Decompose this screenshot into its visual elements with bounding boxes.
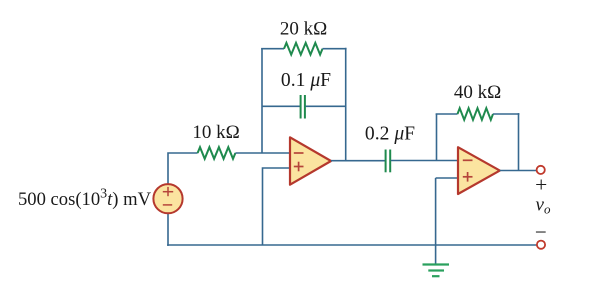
wire: 40k branch left segment: [436, 113, 458, 115]
wire: 10k to op-amp U1 inverting input: [235, 152, 290, 154]
svg-text:10 kΩ: 10 kΩ: [192, 122, 239, 143]
terminal bottom (output -): [537, 241, 545, 249]
wire: bottom rail: [167, 244, 537, 246]
svg-text:0.1 μF: 0.1 μF: [281, 70, 331, 91]
wire: U2 noninverting vertical down to ground: [435, 178, 437, 265]
wire: feedback left vertical: [261, 49, 263, 153]
capacitor C1 0.1 uF: [300, 95, 302, 119]
svg-text:−: −: [535, 220, 547, 244]
svg-text:500 cos(103t) mV: 500 cos(103t) mV: [18, 187, 152, 210]
wire: feedback 2 right vertical: [518, 113, 520, 170]
U1 plus sign: [294, 166, 304, 168]
wire: feedback right vertical: [345, 48, 347, 161]
svg-text:+: +: [535, 172, 547, 196]
svg-text:20 kΩ: 20 kΩ: [280, 19, 327, 40]
capacitor C2 0.2 uF: [385, 150, 387, 173]
svg-text:vo: vo: [536, 195, 551, 217]
wire: U2 output to terminal: [500, 170, 537, 172]
wire: op-amp U1 noninverting input: [263, 168, 291, 245]
wire: 0.1uF branch right segment: [306, 105, 346, 107]
wire: 40k branch right segment: [493, 113, 519, 115]
svg-text:40 kΩ: 40 kΩ: [454, 82, 501, 103]
wire: source bottom: [167, 213, 169, 246]
resistor R1 10 kOhm: [198, 147, 236, 159]
terminal top (output +): [537, 166, 545, 174]
wire: 20k branch right segment: [323, 48, 347, 50]
wire: 20k branch left segment: [261, 48, 284, 50]
wire: U1 output to 0.2uF: [331, 160, 385, 162]
wire: 0.2uF to op-amp U2 inverting input: [391, 160, 458, 162]
op-amp U2: [458, 147, 500, 194]
ground: [423, 263, 450, 265]
resistor R2 20 kOhm: [284, 43, 323, 55]
wire: source top to 10k resistor: [168, 153, 198, 184]
svg-text:0.2 μF: 0.2 μF: [365, 124, 415, 145]
U2 plus sign: [463, 176, 473, 178]
wire: op-amp U2 noninverting input: [436, 177, 458, 179]
op-amp U1: [290, 137, 331, 184]
wire: feedback 2 left vertical: [436, 114, 438, 161]
wire: 0.1uF branch left segment: [262, 105, 300, 107]
U2 minus sign: [463, 159, 473, 161]
voltage source V1: [153, 184, 182, 213]
U1 minus sign: [294, 152, 304, 154]
resistor R3 40 kOhm: [458, 108, 494, 120]
